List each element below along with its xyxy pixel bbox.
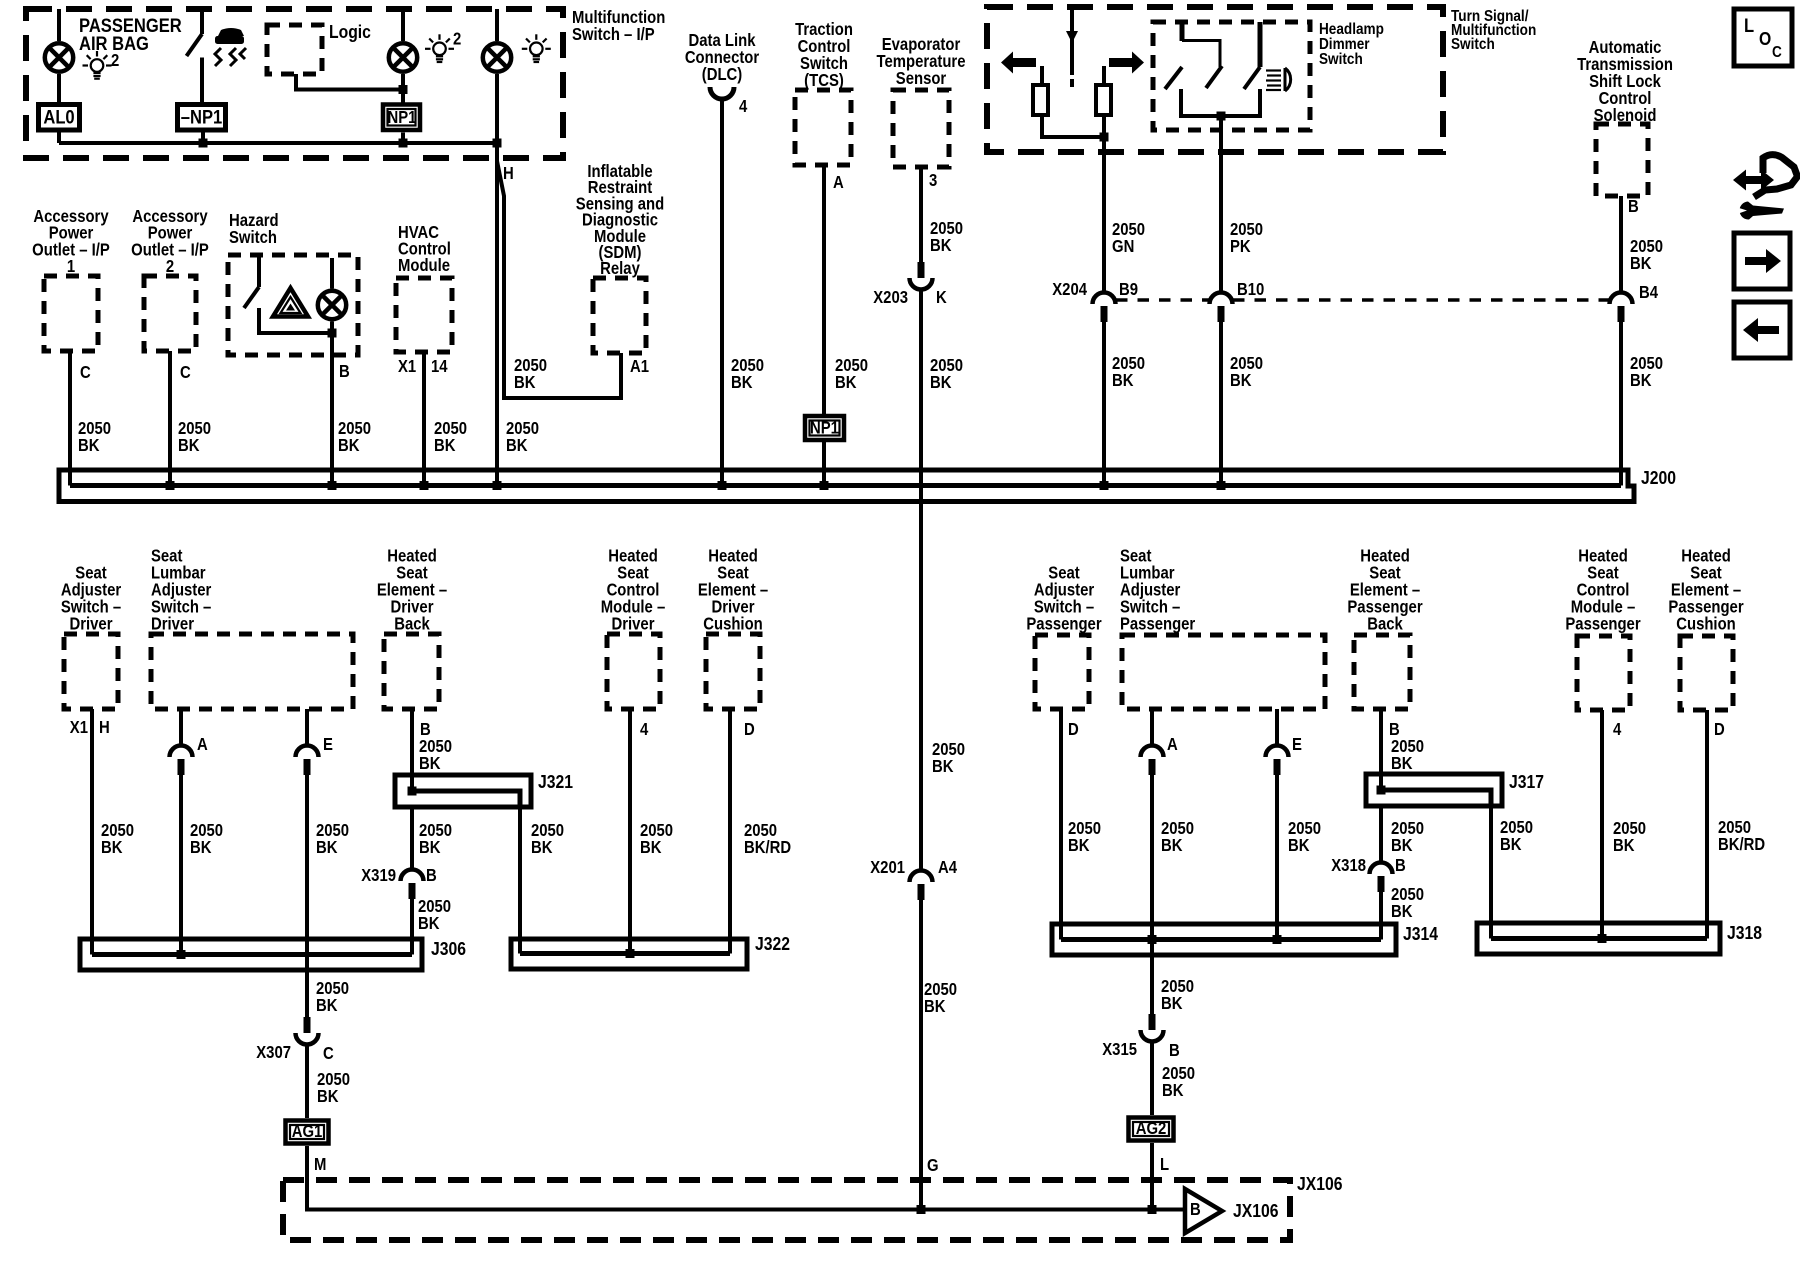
svg-text:NP1: NP1 [810,418,839,437]
heated seat element driver cushion dashed box [706,634,760,709]
wire lamp3 down through bus, H pin, to J200 [495,74,499,486]
svg-text:Passenger: Passenger [1565,614,1641,633]
wire label 2050 BK (HSCM passenger) [1613,819,1646,855]
wire dimmer output to B10 [1219,116,1223,292]
svg-text:BK: BK [1230,371,1252,390]
wire label 2050 BK (B9) [1112,354,1145,390]
dimmer switch contact stub 1 [1180,22,1185,41]
svg-text:X318: X318 [1331,856,1366,875]
svg-text:B: B [1190,1200,1201,1219]
wire label 2050 BK (J321 to J322) [531,821,564,857]
svg-text:J306: J306 [431,938,466,960]
svg-text:B: B [1169,1041,1180,1060]
bulb icon 3 [522,34,551,62]
svg-text:J200: J200 [1641,467,1676,489]
junction [1598,934,1607,943]
wire label 2050 BK (B4) [1630,354,1663,390]
svg-text:A: A [1167,735,1178,754]
wire hazard lamp top [330,258,334,289]
splice bus J200 outer [59,470,1634,502]
wire left resistor to junction [1042,115,1104,137]
svg-text:Back: Back [1367,614,1403,633]
wire J317 down to X318 [1379,806,1383,862]
wire lumbar driver pin E upper [305,709,309,745]
wire HSE driver back pin B to J321 [410,709,414,791]
internal bus wire of multifunction box [59,141,497,145]
svg-text:Switch: Switch [1319,51,1363,68]
label Multifunction Switch - I/P [572,8,665,44]
svg-text:BK: BK [317,1087,339,1106]
svg-text:D: D [1714,720,1725,739]
label Headlamp Dimmer Switch [1319,21,1384,68]
svg-text:Cushion: Cushion [1676,614,1735,633]
junction [328,481,337,490]
wire label 2050 BK (solenoid) [1630,237,1663,273]
junction [626,949,635,958]
svg-text:BK: BK [506,436,528,455]
svg-text:4: 4 [640,720,648,739]
junction [328,329,337,338]
wire solenoid pin B to B4 [1619,196,1623,292]
svg-text:A: A [197,735,208,754]
wire branch to SDM relay A1 [497,161,621,398]
svg-text:BK: BK [1161,994,1183,1013]
junction [408,787,417,796]
label Hazard Switch [229,211,279,247]
wire right arrow to resistor [1102,66,1106,85]
wire lamp1 top [57,9,61,41]
label PASSENGER AIR BAG [79,15,182,55]
wire TCS pin A to NP1 [822,165,826,414]
wire B9 to J200 [1102,320,1106,486]
left arrow legend box [1734,302,1790,358]
bulb icon 1 [83,51,120,79]
bulb icon 2 [425,29,461,62]
svg-text:–NP1: –NP1 [181,106,222,128]
splice bus J318 outer [1477,923,1720,954]
wire pin E to J314 [1275,775,1279,940]
svg-text:BK: BK [835,373,857,392]
wire lamp2 top [401,9,405,41]
svg-text:BK: BK [640,838,662,857]
label Evaporator Temperature Sensor [877,35,966,88]
svg-text:C: C [1772,44,1782,61]
svg-text:X1: X1 [398,357,416,376]
seat adjuster switch driver dashed box [64,634,118,709]
label Seat Adjuster Switch - Passenger [1026,563,1102,633]
junction [399,85,408,94]
label Heated Seat Element - Passenger Cushion [1668,546,1744,633]
wire AG1 pin M to ground bus [307,1146,1185,1210]
multifunction switch I/P dashed box [26,9,563,158]
svg-text:BK: BK [930,373,952,392]
left turn arrow [1001,52,1036,74]
heated seat element passenger cushion dashed box [1680,636,1733,710]
svg-text:Driver: Driver [612,614,656,633]
wire lumbar passenger pin E upper [1275,709,1279,745]
svg-text:B: B [339,362,350,381]
wire label 2050 BK (above X307) [316,979,349,1015]
svg-text:BK: BK [924,997,946,1016]
wire X315 to AG2 [1150,1042,1154,1115]
svg-text:B9: B9 [1119,280,1138,299]
label Turn Signal/Multifunction Switch [1451,8,1536,53]
svg-text:Driver: Driver [70,614,114,633]
ground terminal AG2 (double border box) [1129,1118,1174,1141]
svg-text:JX106: JX106 [1297,1173,1342,1195]
svg-text:A1: A1 [630,357,649,376]
svg-text:BK: BK [316,838,338,857]
label Heated Seat Element - Driver Back [377,546,447,633]
wire J321 down to X319 [410,807,414,869]
svg-text:A: A [833,173,844,192]
car skid icon [215,28,246,66]
label Data Link Connector DLC [685,31,760,84]
label Heated Seat Element - Driver Cushion [698,546,768,633]
DLC connector cavity symbol [710,87,734,99]
wire label 2050 BK (outlet2) [178,419,211,455]
wire outlet2 pin C to J200 [168,351,172,486]
splice bus J306 inner wire [92,952,412,957]
right turn arrow [1109,52,1144,74]
svg-text:Switch – I/P: Switch – I/P [572,25,655,44]
wire label 2050 BK/RD (passenger cushion) [1718,818,1765,854]
svg-text:Cushion: Cushion [703,614,762,633]
svg-text:BK: BK [316,996,338,1015]
wire label 2050 BK (evap lower) [930,356,963,392]
wire pin A to J306 [179,775,183,955]
svg-text:BK: BK [1112,371,1134,390]
junction [1217,481,1226,490]
svg-text:BK: BK [78,436,100,455]
turn signal / multifunction switch dashed box [987,7,1443,152]
svg-text:(TCS): (TCS) [804,71,844,90]
svg-text:BK: BK [178,436,200,455]
wire lumbar driver pin A upper [179,709,183,745]
svg-text:BK: BK [419,754,441,773]
wire label 2050 PK [1230,220,1263,256]
svg-text:B: B [1628,197,1639,216]
headlamp dimmer switch dashed box [1153,22,1310,130]
junction [820,481,829,490]
ground distribution cell JX106 dashed box [283,1180,1290,1240]
svg-text:C: C [323,1044,334,1063]
hazard indicator lamp [318,291,346,319]
svg-text:J318: J318 [1727,922,1762,944]
svg-text:BK: BK [1288,836,1310,855]
junction [718,481,727,490]
wire lamp1 to AL0 [57,74,61,102]
wire lumbar passenger pin A upper [1150,709,1154,745]
svg-text:A4: A4 [938,858,957,877]
wire label 2050 BK (below X307) [317,1070,350,1106]
wire label 2050 BK (X201 upper) [932,740,965,776]
svg-text:B4: B4 [1639,283,1658,302]
svg-text:J321: J321 [538,771,573,793]
fuse -NP1 box [178,105,226,131]
wire NP1 to J200 [822,442,826,486]
wire AL0 to internal bus [57,132,61,143]
svg-text:BK: BK [418,914,440,933]
right arrow legend box [1734,233,1790,289]
svg-text:X204: X204 [1052,280,1087,299]
connector X315 [1141,1014,1164,1042]
svg-text:X315: X315 [1102,1040,1137,1059]
svg-text:(DLC): (DLC) [702,65,742,84]
inline connector pin E (driver) [296,746,319,776]
wire label 2050 BK (seat adj passenger) [1068,819,1101,855]
splice bus J317 inner wire [1381,790,1491,806]
wire label 2050 BK (outlet1) [78,419,111,455]
accessory power outlet 2 dashed box [144,276,196,351]
switch with traction icon [187,9,203,102]
junction [199,139,208,148]
fuse AL0 box [39,105,80,131]
svg-text:BK: BK [1162,1081,1184,1100]
svg-text:AG2: AG2 [1136,1119,1167,1138]
svg-text:BK: BK [1613,836,1635,855]
svg-text:Passenger: Passenger [1026,614,1102,633]
wire left arrow to resistor [1040,66,1044,85]
svg-text:X203: X203 [873,288,908,307]
wire X307 to AG1 [305,1045,309,1118]
wire label 2050 BK (J317 to J318) [1500,818,1533,854]
wire HSE passenger back pin B to J317 [1379,709,1383,790]
svg-text:J314: J314 [1403,923,1438,945]
svg-text:O: O [1759,28,1771,50]
junction [1100,133,1109,142]
wire J317 right leg to J318 [1489,806,1493,939]
splice bus J306 outer [80,939,422,970]
svg-text:B: B [426,866,437,885]
wire logic to lamp2 [296,74,403,90]
svg-text:BK: BK [1161,836,1183,855]
wire J321 right leg to J322 [518,807,522,954]
wire label 2050 BK (HSE passenger back) [1391,737,1424,773]
connector X204 pin B4 [1610,293,1633,323]
wire label 2050 BK (X318 lower) [1391,885,1424,921]
wire label 2050 GN [1112,220,1145,256]
heated seat element passenger back dashed box [1354,635,1410,709]
svg-text:BK: BK [731,373,753,392]
dimmer switch blade 1 [1165,67,1182,89]
wire X318 to J314 [1379,892,1383,940]
wire HVAC pin X1-14 to J200 [422,352,426,486]
ground reference triangle JX106 [1185,1189,1222,1233]
svg-text:14: 14 [431,357,448,376]
svg-text:Switch: Switch [229,228,277,247]
wire label 2050 BK (lumbar E driver) [316,821,349,857]
wire label 2050 BK (below X315) [1162,1064,1195,1100]
label Accessory Power Outlet - I/P 1 [32,207,110,276]
wire label 2050 BK (evap upper) [930,219,963,255]
wire label 2050 BK (TCS) [835,356,868,392]
wire right resistor down to B9 [1102,115,1106,292]
wire label 2050 BK (DLC) [731,356,764,392]
svg-text:2: 2 [111,51,119,70]
svg-text:BK: BK [1630,371,1652,390]
inline connector pin A (passenger) [1141,746,1164,776]
shift lock control solenoid dashed box [1596,124,1648,196]
wire -NP1 to internal bus [201,132,205,143]
ground terminal AG1 (double border box) [286,1121,329,1144]
dimmer switch link to contact 2 [1182,41,1220,68]
indicator lamp 3 [483,43,511,71]
svg-text:PK: PK [1230,237,1251,256]
junction [399,139,408,148]
svg-text:L: L [1160,1155,1169,1174]
hazard triangle icon [273,288,308,317]
inline connector pin A (driver) [170,746,193,775]
wire label 2050 BK (below J317) [1391,819,1424,855]
connector X204 pin B9 [1093,293,1116,323]
service manual icon [1733,155,1798,220]
svg-text:AL0: AL0 [43,106,74,128]
dimmer switch blade 2 [1206,66,1222,88]
splice bus J314 inner wire [1061,937,1381,942]
wire label 2050 BK (X201 lower) [924,980,957,1016]
connector X318 [1370,863,1393,893]
turn signal stalk line with arrow [1066,7,1078,87]
svg-text:Sensor: Sensor [896,69,947,88]
svg-text:M: M [314,1155,326,1174]
svg-text:E: E [323,735,333,754]
wire label 2050 BK (seat adj driver) [101,821,134,857]
junction [1217,112,1226,121]
svg-text:4: 4 [739,97,747,116]
wire seat adjuster driver pin X1-H to J306 [90,709,94,955]
svg-text:K: K [936,288,947,307]
resistor right [1096,85,1111,115]
logic module dashed box [267,25,322,74]
svg-text:BK: BK [1391,836,1413,855]
svg-text:J322: J322 [755,933,790,955]
wire label 2050 BK (lumbar A driver) [190,821,223,857]
junction [177,950,186,959]
svg-text:BK/RD: BK/RD [744,838,791,857]
wire pin A to J314 [1150,775,1154,940]
svg-text:BK: BK [1500,835,1522,854]
svg-text:BK: BK [514,373,536,392]
wire label 2050 BK (HSCM driver) [640,821,673,857]
fuse NP1 box (double border) [383,105,420,131]
wire hazard lamp to pin B and J200 [330,322,334,486]
wire label 2050 BK (below J321) [419,821,452,857]
svg-text:X319: X319 [361,866,396,885]
connector X201 [910,871,933,900]
label SDM Relay [576,162,664,279]
junction [166,481,175,490]
hazard switch contacts [244,255,332,333]
wire HSCM passenger pin 4 to J318 [1600,710,1604,939]
wire label 2050 BK (HSE driver back) [419,737,452,773]
svg-text:C: C [80,363,91,382]
wire label 2050 BK (HVAC) [434,419,467,455]
wire B4 to J200 right end [1619,320,1623,486]
svg-text:AG1: AG1 [292,1122,323,1141]
evaporator temperature sensor dashed box [893,90,949,167]
inline connector pin E (passenger) [1266,746,1289,776]
label Accessory Power Outlet - I/P 2 [131,207,209,276]
seat lumbar adjuster switch passenger dashed box [1122,635,1325,709]
label Heated Seat Control Module - Driver [601,546,665,633]
svg-text:E: E [1292,735,1302,754]
svg-text:BK: BK [1391,754,1413,773]
wire label 2050 BK/RD (driver cushion) [744,821,791,857]
svg-text:D: D [744,720,755,739]
svg-text:X1: X1 [70,718,88,737]
svg-text:BK: BK [434,436,456,455]
svg-text:BK: BK [531,838,553,857]
svg-text:H: H [99,718,110,737]
junction [1148,935,1157,944]
junction [493,139,502,148]
wire label 2050 BK (lumbar E passenger) [1288,819,1321,855]
label Traction Control Switch TCS [795,20,853,90]
svg-text:BK: BK [1630,254,1652,273]
connector row X204 dashed line [1116,298,1609,302]
svg-text:Logic: Logic [329,21,371,43]
wire label 2050 BK (SDM branch) [514,356,547,392]
wire HSCM driver pin 4 to J322 [628,709,632,954]
svg-text:L: L [1744,15,1754,37]
label Automatic Transmission Shift Lock Control Solenoid [1577,38,1673,125]
wire label 2050 BK (above X315) [1161,977,1194,1013]
svg-text:Passenger: Passenger [1120,614,1196,633]
wire outlet1 pin C to J200 [68,351,72,486]
junction [1148,1205,1157,1214]
svg-text:J317: J317 [1509,771,1544,793]
splice bus J322 outer [511,939,747,969]
splice bus J200 inner wire [70,483,1621,488]
wire label 2050 BK (X319 lower) [418,897,451,933]
accessory power outlet 1 dashed box [44,276,98,351]
svg-text:Switch: Switch [1451,36,1495,53]
svg-text:C: C [180,363,191,382]
svg-text:X201: X201 [870,858,905,877]
svg-text:BK: BK [932,757,954,776]
splice bus J314 outer [1052,924,1396,955]
wire AG2 pin L to ground bus [1150,1143,1154,1210]
junction [917,1205,926,1214]
svg-text:NP1: NP1 [388,108,417,127]
label Heated Seat Element - Passenger Back [1347,546,1423,633]
hazard switch dashed box [228,255,358,355]
wire evap sensor pin 3 to X203 [919,167,923,262]
wire DLC pin 4 to J200 [720,99,724,486]
wire X203 down past J200 to X201 [919,290,923,870]
junction [493,481,502,490]
headlamp icon [1266,68,1291,91]
SDM relay dashed box [593,278,646,353]
wire label 2050 BK (B10) [1230,354,1263,390]
junction [1100,481,1109,490]
connector X204 pin B10 [1210,293,1233,323]
indicator lamp 2 [389,43,417,71]
connector X203 [910,262,933,290]
splice bus J321 inner wire [412,791,520,807]
svg-text:JX106: JX106 [1233,1200,1278,1222]
svg-text:GN: GN [1112,237,1134,256]
wire X319 to J306 [410,899,414,955]
svg-text:Module: Module [398,256,450,275]
wire pin E down through J306 to X307 [305,775,309,1017]
LOC legend box [1734,9,1792,66]
wire label 2050 BK (hazard) [338,419,371,455]
junction [420,481,429,490]
svg-text:B: B [1395,856,1406,875]
wire J314 to X315 [1150,940,1154,1015]
